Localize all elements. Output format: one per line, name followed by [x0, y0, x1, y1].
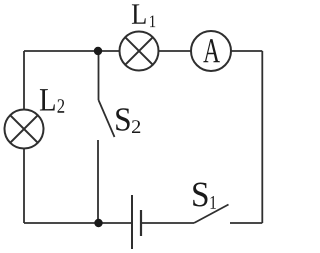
- ammeter A: [191, 31, 231, 71]
- wire left vertical lower: [23, 149, 25, 224]
- label L2: [40, 89, 64, 113]
- wire bottom-left horizontal: [24, 222, 131, 224]
- switch S1 blade: [194, 205, 229, 224]
- wire middle vertical upper (node to S2): [98, 51, 100, 100]
- wire right vertical: [261, 51, 263, 223]
- wire left vertical upper: [23, 51, 25, 110]
- wire battery to switch S1: [142, 222, 194, 224]
- lamp L2: [5, 110, 44, 149]
- wire L1 to ammeter: [159, 50, 192, 52]
- lamp L1: [120, 32, 159, 71]
- label L1: [132, 4, 155, 27]
- label S2: [116, 108, 140, 133]
- node junction top: [94, 47, 102, 55]
- switch S2 blade: [99, 100, 115, 137]
- battery short plate: [140, 210, 142, 236]
- label S1: [193, 182, 216, 208]
- wire S1 right contact: [230, 222, 262, 224]
- battery long plate: [131, 195, 133, 249]
- wire top-left horizontal: [24, 50, 120, 52]
- node junction bottom: [94, 219, 102, 227]
- wire middle vertical lower (S2 to node): [97, 140, 99, 223]
- wire ammeter to right corner: [231, 50, 262, 52]
